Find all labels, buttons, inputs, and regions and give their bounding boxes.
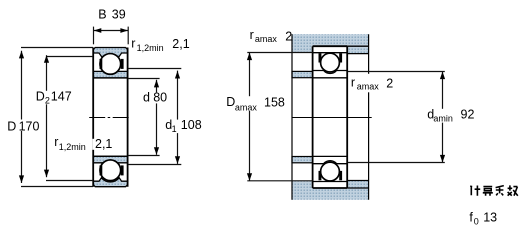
label D 170 (6, 119, 41, 133)
label D2 147 (35, 90, 73, 106)
dimension B arrows (94, 28, 128, 33)
label ramax 2 (top) (250, 28, 293, 44)
dimension damin arrows (440, 72, 445, 163)
cage bars top ball (left view) (100, 59, 124, 69)
bore lines (left view) (93, 78, 127, 156)
svg-text:170: 170 (19, 119, 40, 133)
svg-text:39: 39 (112, 8, 126, 22)
svg-text:80: 80 (153, 91, 167, 105)
dimension Damax arrows (247, 53, 252, 181)
svg-text:0: 0 (474, 216, 479, 226)
inner ring groove arc top section (right view) (324, 71, 337, 74)
svg-text:D: D (226, 95, 235, 109)
svg-text:r: r (250, 28, 254, 42)
label B 39 (98, 8, 125, 22)
svg-text:158: 158 (264, 95, 285, 109)
svg-text:r: r (131, 37, 135, 51)
svg-text:13: 13 (483, 210, 497, 224)
dimension Damax line (247, 53, 312, 181)
cage bars bottom ball (left view) (100, 165, 124, 175)
svg-text:1,2min: 1,2min (137, 43, 164, 53)
dimension B extension lines (94, 27, 129, 45)
label d1 108 (164, 118, 202, 134)
ball bottom (left view) (100, 160, 121, 181)
dimension B line (94, 30, 129, 32)
dimension damin line (348, 72, 445, 163)
dimension D arrows (19, 51, 24, 183)
inner ring groove arc bottom section (right view) (324, 161, 337, 164)
bearing ring lines (right view) (313, 53, 348, 182)
inner ring top (left view) (93, 71, 127, 78)
svg-text:1,2min: 1,2min (59, 142, 86, 152)
ball top (left view) (100, 54, 121, 75)
svg-text:92: 92 (461, 108, 475, 122)
ball bottom (right view) (321, 162, 340, 181)
label ramax 2 (middle) (350, 74, 394, 93)
section left cut line (291, 34, 293, 200)
housing right face line (368, 34, 370, 200)
svg-text:d: d (143, 91, 150, 105)
outer ring bottom (left view) (93, 178, 127, 187)
shaft shoulder bottom band (292, 157, 313, 163)
数 (508, 185, 518, 195)
svg-text:147: 147 (51, 90, 72, 104)
cage bars top ball (right view) (319, 53, 343, 62)
svg-text:2: 2 (285, 29, 292, 43)
outer ring top (left view) (93, 48, 127, 61)
inner ring bottom (left view) (93, 156, 127, 163)
label f0 13 (469, 210, 497, 226)
centerline (right view) (292, 117, 372, 119)
shaft shoulder top band (292, 71, 313, 77)
算 (483, 187, 493, 196)
bearing side faces (left view) (93, 48, 127, 187)
svg-text:1: 1 (172, 124, 177, 134)
dimension d1 arrows (175, 71, 180, 164)
label r 1,2min 2,1 (top) (131, 37, 190, 53)
svg-text:r: r (351, 75, 355, 89)
housing bottom block (292, 180, 369, 200)
label r 1,2min 2,1 (bottom) (54, 135, 112, 152)
计 (470, 186, 480, 196)
dimension D line (21, 48, 93, 187)
label damin 92 (426, 107, 474, 123)
label 计算系数 (calculation factors, pseudo CJK glyphs) (470, 185, 518, 195)
svg-text:2,1: 2,1 (172, 37, 189, 51)
svg-text:amax: amax (255, 34, 278, 44)
dimension d line (128, 79, 160, 156)
bearing outline (right view) (313, 46, 348, 188)
svg-text:108: 108 (181, 118, 202, 132)
cage bars bottom ball (right view) (319, 171, 343, 180)
centerline (left view) (89, 117, 130, 119)
svg-text:2: 2 (386, 77, 393, 91)
label d 80 (142, 91, 167, 105)
svg-text:r: r (54, 135, 58, 149)
ball top (right view) (321, 53, 340, 72)
svg-text:D: D (36, 90, 45, 104)
label Damax 158 (225, 95, 285, 112)
svg-text:amax: amax (357, 81, 380, 91)
svg-text:f: f (469, 210, 473, 224)
svg-text:amin: amin (433, 114, 453, 124)
svg-text:amax: amax (235, 102, 258, 112)
svg-text:2: 2 (45, 96, 50, 106)
系 (496, 186, 504, 196)
dimension D2 arrows (44, 55, 49, 177)
svg-text:2,1: 2,1 (95, 137, 112, 151)
dimension d1 line (128, 69, 182, 165)
dimension D2 line (46, 55, 93, 180)
svg-text:B: B (98, 8, 106, 22)
housing top block (292, 34, 369, 54)
dimension d arrows (154, 80, 159, 155)
svg-text:D: D (7, 119, 16, 133)
